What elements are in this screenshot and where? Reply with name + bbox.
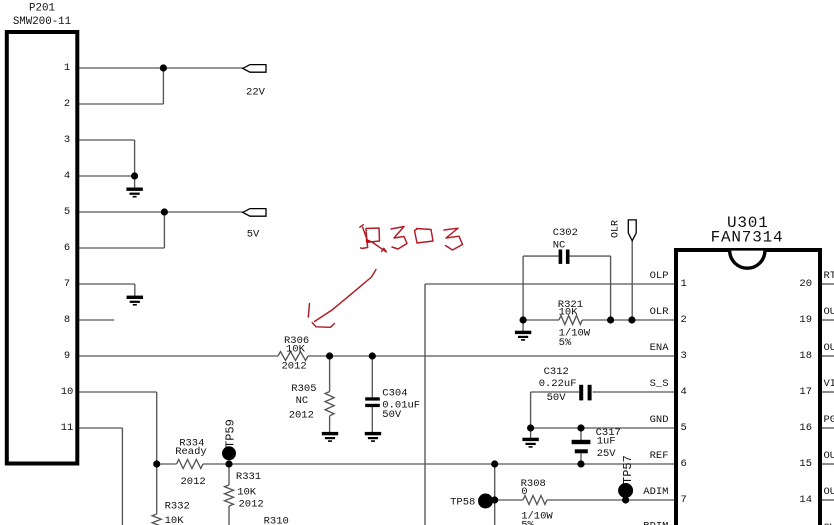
svg-text:16: 16 [799,422,812,434]
svg-text:7: 7 [681,494,687,506]
svg-text:50V: 50V [547,392,567,404]
svg-text:5%: 5% [521,520,534,525]
svg-text:OUT1: OUT1 [824,342,834,354]
svg-text:2012: 2012 [181,476,206,488]
svg-text:REF: REF [650,450,669,462]
svg-text:18: 18 [799,350,812,362]
svg-text:9: 9 [64,350,70,362]
svg-text:1uF: 1uF [597,436,616,448]
svg-text:R305: R305 [291,383,316,395]
svg-text:1: 1 [64,62,70,74]
svg-text:PGND: PGND [824,414,834,426]
svg-text:20: 20 [799,278,812,290]
svg-text:VIN: VIN [824,378,834,390]
svg-text:19: 19 [799,314,812,326]
svg-text:10K: 10K [559,306,579,318]
svg-text:10: 10 [61,386,74,398]
svg-text:2: 2 [64,98,70,110]
svg-text:17: 17 [799,386,812,398]
svg-text:14: 14 [799,494,812,506]
svg-text:0: 0 [521,486,527,498]
svg-text:7: 7 [64,278,70,290]
svg-text:2: 2 [681,314,687,326]
svg-text:OLR: OLR [611,220,622,238]
svg-text:4: 4 [64,170,70,182]
svg-text:R332: R332 [165,500,190,512]
svg-text:R310: R310 [264,516,289,525]
svg-text:TP58: TP58 [450,497,475,509]
svg-text:50V: 50V [382,409,402,421]
svg-text:10K: 10K [286,344,306,356]
svg-text:6: 6 [64,242,70,254]
svg-text:5: 5 [681,422,687,434]
svg-text:NC: NC [296,395,309,407]
svg-text:OUT4: OUT4 [824,450,834,462]
svg-text:11: 11 [61,422,74,434]
svg-text:TP59: TP59 [224,419,238,448]
svg-text:OLR: OLR [650,306,670,318]
svg-text:OUT3: OUT3 [824,486,834,498]
svg-text:10K: 10K [165,515,185,525]
svg-text:GND: GND [650,414,669,426]
svg-text:C304: C304 [382,388,407,400]
svg-text:2012: 2012 [289,410,314,422]
svg-text:22V: 22V [246,87,266,99]
svg-text:S_S: S_S [650,378,669,390]
svg-text:2012: 2012 [282,360,307,372]
svg-text:15: 15 [799,458,812,470]
svg-text:ENA: ENA [650,342,670,354]
svg-text:10K: 10K [237,487,257,499]
svg-text:OUT2: OUT2 [824,306,834,318]
svg-text:5V: 5V [247,229,260,241]
svg-text:0.22uF: 0.22uF [539,378,577,390]
svg-text:1: 1 [681,278,687,290]
svg-text:R331: R331 [236,471,261,483]
svg-text:5: 5 [64,206,70,218]
svg-text:6: 6 [681,458,687,470]
svg-text:C302: C302 [553,227,578,239]
svg-text:3: 3 [64,134,70,146]
svg-text:Ready: Ready [175,446,207,458]
svg-text:5%: 5% [559,337,572,349]
svg-text:BDIM: BDIM [643,521,668,525]
svg-text:2012: 2012 [239,499,264,511]
svg-text:FAN7314: FAN7314 [711,229,784,247]
svg-text:NC: NC [553,240,566,252]
svg-text:3: 3 [681,350,687,362]
svg-text:SMW200-11: SMW200-11 [13,16,71,28]
svg-text:C312: C312 [544,366,569,378]
svg-text:RT: RT [824,270,834,282]
svg-text:TP57: TP57 [621,455,635,484]
svg-text:ADIM: ADIM [643,486,668,498]
svg-text:8: 8 [64,314,70,326]
svg-text:OLP: OLP [650,270,669,282]
svg-text:25V: 25V [597,448,617,460]
svg-text:P201: P201 [29,3,55,15]
svg-text:4: 4 [681,386,687,398]
